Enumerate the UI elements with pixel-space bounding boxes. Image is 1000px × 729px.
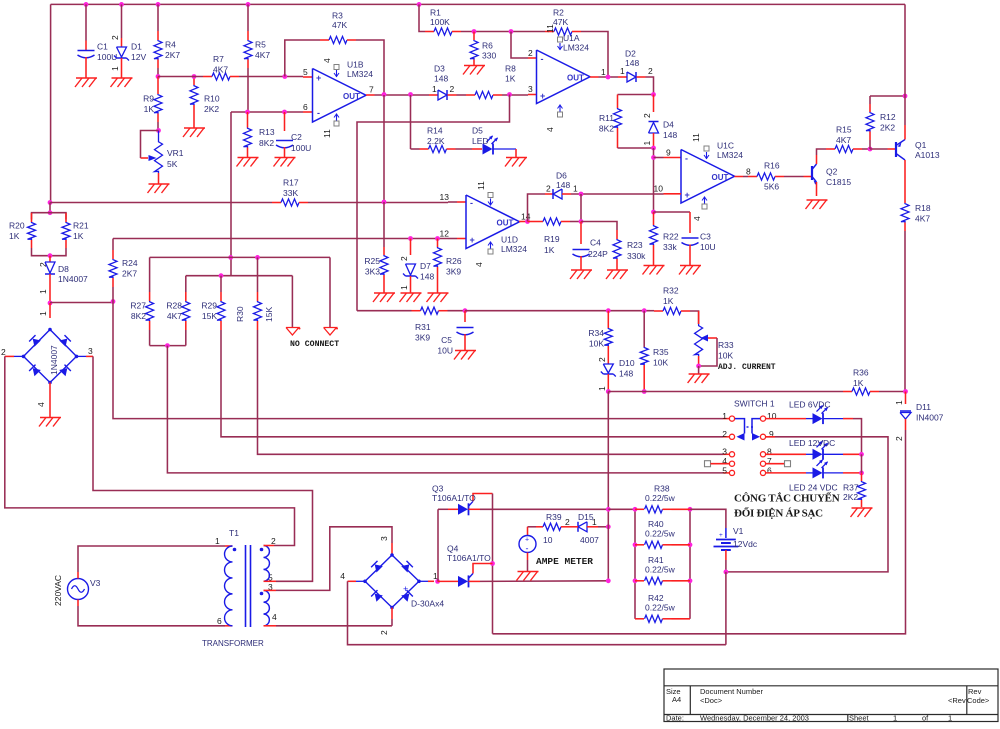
node R35 bottom — [642, 389, 647, 394]
svg-text:4K7: 4K7 — [167, 311, 182, 321]
svg-text:D3: D3 — [434, 64, 445, 74]
resistor R21 — [50, 213, 66, 220]
diode D3 — [429, 94, 438, 96]
svg-text:IN4007: IN4007 — [916, 413, 944, 423]
node pin9 — [651, 155, 656, 160]
svg-text:2.2K: 2.2K — [427, 136, 445, 146]
svg-text:100K: 100K — [430, 17, 450, 27]
node V+/R12 — [903, 94, 908, 99]
ampe meter M1 — [528, 526, 537, 528]
resistor R42 — [635, 618, 644, 620]
bridge pin 4 lead — [49, 383, 51, 418]
resistor R36 — [843, 391, 852, 393]
svg-text:2K2: 2K2 — [204, 104, 219, 114]
LED 12VDC — [766, 453, 806, 455]
svg-text:R16: R16 — [764, 161, 780, 171]
svg-text:D7: D7 — [420, 261, 431, 271]
power pin 4 of U1A — [558, 112, 563, 117]
resistor R23 — [616, 230, 618, 239]
svg-text:1: 1 — [573, 184, 578, 194]
svg-text:R13: R13 — [259, 127, 275, 137]
svg-text:of: of — [922, 714, 929, 723]
svg-text:R22: R22 — [663, 232, 679, 242]
resistor R34 — [607, 311, 609, 328]
diode D7 — [410, 239, 412, 256]
svg-text:1: 1 — [215, 536, 220, 546]
pin 12 stub U1D — [448, 238, 457, 240]
resistor R11 branch — [618, 94, 654, 96]
resistor R6 — [473, 32, 475, 41]
node R4/R9/R7 — [156, 74, 161, 79]
node R3/out — [382, 92, 387, 97]
node R36/D11 — [903, 389, 908, 394]
node battery minus — [724, 570, 729, 575]
resistor R5 — [247, 4, 249, 31]
resistor R35 — [643, 311, 645, 347]
svg-text:R39: R39 — [546, 512, 562, 522]
svg-text:1: 1 — [642, 141, 652, 146]
wire bridge pin2 to T1 pin2 — [5, 356, 295, 545]
svg-text:-: - — [685, 154, 688, 164]
svg-text:33K: 33K — [283, 188, 298, 198]
node R9/VR1 — [156, 128, 161, 133]
svg-text:-: - — [541, 54, 544, 64]
svg-text:11: 11 — [545, 24, 555, 33]
capacitor C3 — [654, 211, 691, 213]
svg-text:15K: 15K — [264, 307, 274, 322]
node LED12 — [859, 452, 864, 457]
svg-text:R27: R27 — [130, 301, 146, 311]
diode D11 — [905, 392, 907, 405]
svg-text:1: 1 — [597, 386, 607, 391]
node y257 junction — [228, 255, 233, 260]
resistor R15 — [817, 149, 827, 155]
capacitor C5 — [464, 311, 466, 322]
svg-text:148: 148 — [625, 58, 639, 68]
svg-text:1K: 1K — [73, 231, 84, 241]
ground for R33 — [689, 373, 710, 375]
svg-text:U1A: U1A — [563, 33, 580, 43]
wire T1 pin3 to bridge2 top — [276, 527, 392, 591]
svg-text:OUT: OUT — [712, 173, 729, 182]
svg-text:R9: R9 — [143, 94, 154, 104]
svg-text:Q4: Q4 — [447, 544, 459, 554]
wire row pin3 — [258, 330, 724, 454]
wire D11 down to gate net — [493, 430, 906, 634]
node D4 bottom — [651, 146, 656, 151]
diode D4 — [653, 95, 655, 113]
svg-text:Document Number: Document Number — [700, 687, 763, 696]
ground for R13 — [238, 157, 259, 159]
wire charge + net vertical — [607, 509, 609, 581]
svg-text:R20: R20 — [9, 221, 25, 231]
resistor R9 — [157, 77, 159, 95]
svg-text:NO CONNECT: NO CONNECT — [290, 340, 339, 349]
svg-text:OUT: OUT — [343, 92, 360, 101]
resistor R41 — [635, 580, 644, 582]
node R20/R21 bottom — [48, 253, 53, 258]
svg-text:1K: 1K — [853, 378, 864, 388]
svg-text:3K3: 3K3 — [365, 267, 380, 277]
wire row pin5 — [167, 346, 723, 473]
svg-text:Wednesday, December 24, 2003: Wednesday, December 24, 2003 — [700, 714, 809, 723]
svg-text:2: 2 — [648, 66, 653, 76]
wire y257 R27/R30/NC2 — [150, 256, 330, 258]
wire Q1 collector — [904, 160, 906, 203]
wire R11/D4 to U1C pin9 — [653, 148, 655, 212]
resistor R24 — [112, 239, 114, 251]
resistor R7 — [158, 76, 203, 78]
resistor R3 feedback — [285, 40, 320, 77]
wire V+ top bus — [51, 3, 905, 5]
capacitor C2 — [284, 112, 286, 131]
LED 6VDC — [766, 418, 806, 420]
resistor R27 — [149, 257, 151, 292]
svg-text:R25: R25 — [364, 256, 380, 266]
pin 2 stub U1A — [528, 57, 537, 59]
svg-text:148: 148 — [556, 180, 570, 190]
svg-text:R3: R3 — [332, 11, 343, 21]
bridge pin 2 lead — [14, 355, 24, 357]
wire T1 pin4 to bridge2 pin2 — [276, 625, 392, 627]
svg-text:5K: 5K — [167, 159, 178, 169]
node U1A pin2 tap — [509, 29, 514, 34]
svg-text:1K: 1K — [663, 296, 674, 306]
svg-text:2K7: 2K7 — [165, 50, 180, 60]
svg-text:LM324: LM324 — [347, 69, 373, 79]
pin 5 stub U1B — [303, 76, 313, 78]
svg-text:D4: D4 — [663, 120, 674, 130]
svg-text:LM324: LM324 — [563, 43, 589, 53]
ground for R37 — [852, 507, 873, 509]
svg-text:1: 1 — [38, 289, 48, 294]
svg-text:15K: 15K — [202, 311, 217, 321]
svg-text:AMPE METER: AMPE METER — [536, 556, 593, 567]
svg-text:LM324: LM324 — [501, 244, 527, 254]
resistor R1 — [419, 4, 425, 31]
ground for Q2 — [807, 199, 828, 201]
pin 9 stub U1C — [664, 157, 682, 159]
svg-text:1: 1 — [592, 517, 597, 527]
resistor R10 — [193, 77, 195, 86]
svg-text:4: 4 — [340, 571, 345, 581]
resistor R17 — [50, 202, 272, 204]
node R19/C4 — [579, 219, 584, 224]
ground for bridge — [40, 417, 61, 419]
svg-text:10U: 10U — [437, 346, 453, 356]
svg-text:+: + — [540, 91, 545, 101]
bridge2 pin2 lead — [391, 608, 393, 620]
wire U1B output net — [375, 94, 430, 96]
transistor Q2 — [811, 166, 813, 180]
svg-text:1K: 1K — [9, 231, 20, 241]
resistor ladder rails — [634, 509, 636, 619]
svg-text:Rev: Rev — [968, 687, 982, 696]
svg-text:A4: A4 — [672, 695, 681, 704]
svg-text:2: 2 — [110, 35, 120, 40]
svg-text:+: + — [316, 73, 321, 83]
svg-text:R41: R41 — [648, 555, 664, 565]
wire row pin9 to battery minus — [727, 437, 888, 572]
svg-text:12: 12 — [440, 229, 450, 239]
node R24 bottom — [111, 299, 116, 304]
battery V1 — [725, 528, 727, 538]
svg-text:148: 148 — [663, 130, 677, 140]
svg-text:R32: R32 — [663, 286, 679, 296]
wire V+ rail right — [904, 4, 906, 125]
pin 8 stub U1C — [735, 176, 744, 178]
svg-text:1: 1 — [893, 714, 897, 723]
svg-text:R26: R26 — [446, 256, 462, 266]
svg-text:1N4007: 1N4007 — [58, 274, 88, 284]
svg-text:7: 7 — [369, 85, 374, 95]
svg-text:8K2: 8K2 — [131, 311, 146, 321]
wire U1A out to D2 — [599, 76, 619, 78]
node C5 — [463, 308, 468, 313]
svg-text:5K6: 5K6 — [764, 182, 779, 192]
svg-text:4: 4 — [545, 127, 555, 132]
svg-text:R21: R21 — [73, 221, 89, 231]
svg-text:2: 2 — [1, 347, 6, 357]
diode D8 — [49, 256, 51, 262]
svg-text:OUT: OUT — [567, 73, 584, 82]
ground for R26 — [428, 292, 449, 294]
svg-text:0.22/5w: 0.22/5w — [645, 493, 676, 503]
no-connect stub pin 7 — [766, 463, 785, 465]
svg-text:-: - — [470, 198, 473, 208]
svg-text:3: 3 — [379, 536, 389, 541]
node R3/pin5 — [282, 74, 287, 79]
svg-text:R40: R40 — [648, 519, 664, 529]
svg-text:R17: R17 — [283, 178, 299, 188]
svg-text:148: 148 — [619, 369, 633, 379]
svg-text:U1B: U1B — [347, 60, 364, 70]
wire to U1A pin2 — [511, 32, 528, 59]
pin 14 stub U1D — [519, 221, 528, 223]
svg-text:C3: C3 — [700, 232, 711, 242]
wire row pin1 — [113, 302, 723, 419]
svg-text:A1013: A1013 — [915, 150, 940, 160]
node R30 top — [255, 255, 260, 260]
resistor R37 — [861, 473, 863, 481]
node Q3 out — [606, 507, 611, 512]
node D4 top — [651, 92, 656, 97]
svg-text:C1815: C1815 — [826, 177, 851, 187]
node D10 bottom — [606, 389, 611, 394]
ground for C4 — [571, 269, 592, 271]
svg-text:2K2: 2K2 — [880, 123, 895, 133]
pin 7 stub U1B — [366, 94, 375, 96]
svg-text:D-30Ax4: D-30Ax4 — [411, 599, 444, 609]
svg-text:D10: D10 — [619, 358, 635, 368]
node R26 top — [435, 236, 440, 241]
svg-text:D8: D8 — [58, 264, 69, 274]
svg-text:4: 4 — [36, 402, 46, 407]
svg-text:224P: 224P — [588, 249, 608, 259]
svg-text:LED 12VDC: LED 12VDC — [789, 438, 835, 448]
svg-text:2: 2 — [597, 357, 607, 362]
svg-text:C4: C4 — [590, 238, 601, 248]
node R29 top — [219, 273, 224, 278]
pin 6 stub U1B — [303, 111, 313, 113]
bridge pin 3 lead — [77, 355, 87, 357]
svg-text:R1: R1 — [430, 8, 441, 18]
svg-text:9: 9 — [769, 429, 774, 439]
LED 24 VDC — [766, 472, 806, 474]
svg-text:2: 2 — [528, 48, 533, 58]
svg-text:11: 11 — [691, 133, 701, 142]
svg-text:D2: D2 — [625, 49, 636, 59]
svg-text:4K7: 4K7 — [255, 50, 270, 60]
resistor R13 — [247, 112, 249, 128]
ground for D5 — [506, 157, 527, 159]
svg-text:R7: R7 — [213, 54, 224, 64]
svg-text:33k: 33k — [663, 242, 677, 252]
svg-text:10: 10 — [767, 411, 777, 421]
svg-text:4: 4 — [272, 612, 277, 622]
node D8 out — [48, 301, 53, 306]
svg-text:330k: 330k — [627, 251, 646, 261]
svg-text:R38: R38 — [654, 484, 670, 494]
wire R31 row to R34 — [465, 310, 650, 312]
wire bridge pin3 to T1 pin5 — [93, 356, 313, 581]
node R20/R21 top — [48, 210, 53, 215]
svg-text:2K7: 2K7 — [122, 269, 137, 279]
switch link dashes — [747, 426, 749, 428]
ground for C2 — [275, 157, 296, 159]
wire battery minus — [725, 560, 727, 572]
ground for D7 — [401, 292, 422, 294]
svg-text:V3: V3 — [90, 578, 101, 588]
node Q4 gate — [490, 561, 495, 566]
op-amp U1D — [466, 195, 520, 249]
wire D2 to R11/D4 block — [646, 77, 654, 95]
wire gate riser — [492, 494, 494, 634]
svg-text:R24: R24 — [122, 258, 138, 268]
svg-text:R8: R8 — [505, 64, 516, 74]
svg-text:CÔNG TẮC CHUYỂN: CÔNG TẮC CHUYỂN — [734, 492, 840, 505]
svg-text:13: 13 — [440, 192, 450, 202]
svg-text:47K: 47K — [332, 20, 347, 30]
svg-text:ĐỔI ĐIỆN ÁP SẠC: ĐỔI ĐIỆN ÁP SẠC — [734, 507, 823, 520]
switch lever right — [752, 419, 760, 434]
ground for C1 — [76, 77, 97, 79]
svg-text:2: 2 — [894, 436, 904, 441]
svg-text:0.22/5w: 0.22/5w — [645, 565, 676, 575]
svg-text:10U: 10U — [700, 242, 716, 252]
svg-text:5: 5 — [722, 465, 727, 475]
resistor R30 — [257, 257, 259, 292]
AC source V3 — [68, 579, 89, 600]
resistor R38 — [635, 508, 644, 510]
svg-text:2: 2 — [379, 630, 389, 635]
ground for C5 — [455, 350, 476, 352]
op-amp U1A — [537, 50, 591, 104]
svg-text:3K9: 3K9 — [415, 333, 430, 343]
op-amp U1C — [681, 150, 735, 204]
ground for meter — [518, 571, 539, 573]
wire pin6 net — [231, 111, 303, 113]
node R13 top — [245, 110, 250, 115]
svg-text:R36: R36 — [853, 368, 869, 378]
svg-text:D1: D1 — [131, 42, 142, 52]
svg-text:3: 3 — [88, 346, 93, 356]
svg-text:1: 1 — [948, 714, 952, 723]
node R2/out — [606, 75, 611, 80]
wire to R31 net — [357, 95, 510, 311]
svg-text:6: 6 — [303, 102, 308, 112]
svg-text:1: 1 — [38, 311, 48, 316]
svg-text:4K7: 4K7 — [213, 64, 228, 74]
svg-text:R35: R35 — [653, 347, 669, 357]
svg-text:148: 148 — [434, 74, 448, 84]
svg-text:R12: R12 — [880, 112, 896, 122]
svg-text:Code>: Code> — [967, 696, 990, 705]
svg-text:1: 1 — [399, 285, 409, 290]
LED D5 — [472, 148, 482, 150]
svg-text:330: 330 — [482, 51, 496, 61]
node C2 top — [282, 110, 287, 115]
wire R24/pin12 line — [113, 238, 448, 240]
svg-text:10: 10 — [543, 535, 553, 545]
svg-text:D11: D11 — [916, 402, 931, 412]
resistor R20 — [32, 213, 51, 220]
node U1D out — [525, 219, 530, 224]
svg-text:R10: R10 — [204, 94, 220, 104]
svg-text:8K2: 8K2 — [259, 138, 274, 148]
no-connect stub pin 4 — [705, 461, 711, 467]
power pin 4 of U1D — [488, 249, 493, 254]
T1 pin5 stub — [264, 580, 277, 582]
svg-text:R37: R37 — [843, 483, 859, 493]
svg-text:R33: R33 — [718, 340, 734, 350]
resistor R31 — [357, 310, 412, 312]
resistor R19 — [528, 221, 544, 223]
no-connect 1 — [291, 276, 293, 327]
svg-text:V1: V1 — [733, 526, 744, 536]
pin 10 stub U1C — [664, 193, 682, 195]
svg-text:R23: R23 — [627, 240, 643, 250]
svg-text:SWITCH 1: SWITCH 1 — [734, 399, 775, 409]
potentiometer R33 — [698, 311, 700, 324]
svg-text:8K2: 8K2 — [599, 124, 614, 134]
node R34 top — [606, 308, 611, 313]
node R15/R12/Q1 base — [868, 147, 873, 152]
svg-text:Q3: Q3 — [432, 484, 444, 494]
capacitor C1 — [85, 4, 87, 40]
wire primary loop — [78, 546, 225, 572]
svg-text:LED: LED — [472, 136, 489, 146]
svg-text:4K7: 4K7 — [915, 214, 930, 224]
svg-text:LM324: LM324 — [717, 150, 743, 160]
svg-text:47K: 47K — [553, 17, 568, 27]
svg-text:R11: R11 — [599, 113, 614, 123]
svg-text:U1C: U1C — [717, 141, 734, 151]
pin 1 stub U1A — [590, 76, 599, 78]
svg-text:LED 6VDC: LED 6VDC — [789, 400, 831, 410]
pin 13 stub U1D — [448, 201, 457, 203]
svg-text:1: 1 — [894, 400, 904, 405]
svg-text:Q1: Q1 — [915, 140, 927, 150]
junction dots on top bus — [84, 2, 89, 7]
wire to R38 ladder — [608, 508, 635, 510]
bridge2 pin1 lead — [419, 580, 428, 582]
svg-text:D6: D6 — [556, 171, 567, 181]
switch lever left — [735, 419, 745, 434]
svg-text:3K9: 3K9 — [446, 267, 461, 277]
svg-text:8: 8 — [746, 167, 751, 177]
svg-text:VR1: VR1 — [167, 148, 184, 158]
